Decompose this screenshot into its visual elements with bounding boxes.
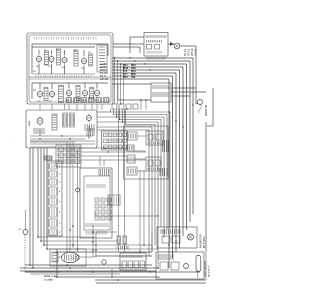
wire xyxy=(123,67,125,104)
wire xyxy=(180,45,196,47)
harness wire xyxy=(97,111,111,113)
terminal M1 xyxy=(112,104,117,109)
fuse F2 xyxy=(123,236,127,244)
wire xyxy=(99,156,101,166)
key switch K8 xyxy=(101,210,105,214)
latch motor M1 xyxy=(62,252,81,262)
wire xyxy=(72,143,74,248)
surface element P7 xyxy=(66,88,71,97)
indicator light PL1 xyxy=(198,100,203,114)
svg-text:GR GN: GR GN xyxy=(100,78,108,81)
key switch K3 xyxy=(107,198,111,202)
junction xyxy=(69,267,71,269)
connector block C1 xyxy=(49,163,61,169)
fan box xyxy=(157,227,197,248)
wire xyxy=(157,249,159,268)
bus wire xyxy=(112,75,173,77)
junction xyxy=(117,279,119,281)
junction xyxy=(95,249,97,251)
harness wire xyxy=(126,109,156,245)
wire xyxy=(117,61,119,104)
wire xyxy=(84,104,86,110)
wire xyxy=(134,150,146,152)
wire xyxy=(64,50,66,55)
relay contact R8 xyxy=(66,159,72,164)
wire xyxy=(64,65,66,74)
junction xyxy=(122,121,123,122)
relay contact R2 xyxy=(66,147,72,152)
label column xyxy=(200,234,207,248)
wire xyxy=(68,104,70,110)
wire xyxy=(195,46,197,104)
panel terminal T6 xyxy=(104,98,110,103)
switch S2 xyxy=(57,49,61,65)
junction xyxy=(168,111,169,112)
junction xyxy=(123,66,124,67)
junction xyxy=(72,244,74,246)
note text xyxy=(44,275,59,282)
panel terminal T1 xyxy=(66,98,72,103)
wire xyxy=(118,109,120,236)
latch relay text xyxy=(153,85,169,89)
bus wire xyxy=(112,57,193,59)
wire xyxy=(57,251,152,253)
junction xyxy=(29,264,31,266)
junction xyxy=(77,248,79,250)
junction xyxy=(172,251,174,253)
connector block C4 xyxy=(49,187,61,196)
harness wire xyxy=(117,109,165,238)
connector box text xyxy=(122,255,142,258)
junction xyxy=(157,267,159,269)
bus wire xyxy=(112,60,190,62)
wire xyxy=(56,249,58,277)
terminal B1 xyxy=(122,261,127,268)
panel bus wire L1 xyxy=(32,43,108,45)
wire xyxy=(38,50,40,54)
latch motor box xyxy=(50,249,86,266)
surface element P6 xyxy=(49,89,54,98)
oven lamp L2 xyxy=(37,116,43,126)
junction xyxy=(114,57,115,58)
relay box K2 xyxy=(146,157,161,171)
bundle wire xyxy=(168,79,170,268)
wire xyxy=(83,50,85,56)
wire xyxy=(20,267,158,269)
terminal M4 xyxy=(133,104,138,109)
connector J4 xyxy=(127,167,137,175)
key switch K6 xyxy=(107,204,111,208)
surface element P8 xyxy=(82,88,87,97)
wire xyxy=(51,50,53,54)
terminal B4 xyxy=(140,261,145,268)
surface switch panel inner box xyxy=(29,35,111,102)
clock lower marks xyxy=(147,51,161,54)
oven sensor RTD xyxy=(196,256,201,272)
wire xyxy=(64,104,66,110)
wire xyxy=(145,100,147,110)
wire xyxy=(124,244,126,252)
wire xyxy=(32,148,34,268)
junction xyxy=(175,120,176,121)
wire xyxy=(114,58,116,104)
svg-text:TN0: TN0 xyxy=(131,77,136,79)
wire xyxy=(81,155,127,157)
wire xyxy=(81,147,127,149)
selector switch xyxy=(52,114,57,130)
divider label marks xyxy=(36,76,91,78)
svg-text:FAN MOTOR: FAN MOTOR xyxy=(200,234,203,248)
switch S5 xyxy=(44,88,48,101)
wire xyxy=(83,66,85,74)
wire xyxy=(168,43,174,45)
junction xyxy=(134,60,135,61)
surface element P5 xyxy=(37,89,42,98)
wire xyxy=(40,148,42,241)
wire xyxy=(31,83,33,99)
clock text row xyxy=(146,35,166,38)
connector block C8 xyxy=(49,229,61,235)
oven lamp L3 xyxy=(87,114,92,123)
fan box text xyxy=(161,229,180,234)
svg-text:GY7: GY7 xyxy=(123,74,128,76)
wire xyxy=(205,122,207,252)
junction xyxy=(61,135,62,136)
connector J2 xyxy=(127,145,134,151)
wire xyxy=(20,270,156,272)
harness wire xyxy=(111,109,171,227)
junction xyxy=(149,69,150,70)
fuse label xyxy=(117,246,128,249)
wire xyxy=(68,83,70,88)
bus wire xyxy=(112,63,187,65)
wire xyxy=(58,256,62,258)
key switch K4 xyxy=(95,204,99,208)
surface element P4 xyxy=(81,56,86,65)
erc inner box xyxy=(84,176,110,230)
mid label xyxy=(87,128,94,136)
svg-text:BR8: BR8 xyxy=(131,74,136,76)
wire xyxy=(39,83,41,89)
wire xyxy=(39,129,41,136)
latch relay box xyxy=(151,83,171,102)
switch S4 xyxy=(89,54,93,66)
wire xyxy=(80,256,95,258)
junction xyxy=(157,215,158,216)
junction xyxy=(92,241,94,243)
wire xyxy=(33,73,95,75)
key switch K12 xyxy=(107,216,111,220)
wire xyxy=(38,236,95,238)
bundle wire xyxy=(189,61,191,222)
junction xyxy=(92,249,94,251)
key switch K10 xyxy=(95,216,99,220)
wire xyxy=(29,148,31,265)
wire xyxy=(51,83,53,89)
oven switch box xyxy=(26,110,97,148)
wire xyxy=(135,158,146,160)
connector label P1 xyxy=(44,156,52,160)
junction xyxy=(56,276,58,278)
svg-text:RD2: RD2 xyxy=(131,65,136,67)
key switch K9 xyxy=(107,210,111,214)
wire xyxy=(96,83,98,88)
key switch K11 xyxy=(101,216,105,220)
wire xyxy=(76,104,78,110)
connector block C2 xyxy=(49,171,61,177)
wire xyxy=(130,36,144,38)
svg-text:DOOR SW: DOOR SW xyxy=(206,104,208,116)
switch S7 xyxy=(76,86,80,101)
wire xyxy=(139,170,141,252)
junction xyxy=(144,63,145,64)
clock relay contact xyxy=(147,45,152,50)
wire xyxy=(101,104,103,110)
terminal M2 xyxy=(119,104,124,109)
wire xyxy=(112,83,151,85)
connector block C5 xyxy=(49,198,61,205)
oven lamp label xyxy=(34,128,44,134)
wire xyxy=(107,44,109,56)
wire xyxy=(171,95,190,97)
connector block C6 xyxy=(49,207,61,217)
wire xyxy=(196,103,198,106)
wire xyxy=(43,148,45,245)
wire xyxy=(37,148,39,237)
wire xyxy=(140,100,142,110)
wire xyxy=(66,143,68,252)
connector block C3 xyxy=(49,179,61,185)
bus wire xyxy=(112,66,183,68)
svg-text:RD-4 WH-2: RD-4 WH-2 xyxy=(209,265,211,277)
bundle wire xyxy=(192,58,194,214)
junction xyxy=(69,229,71,231)
relay contact R1 xyxy=(58,147,64,152)
surface element P2 xyxy=(49,54,54,63)
wire xyxy=(171,87,196,89)
erc lower text xyxy=(86,223,108,227)
harness wire xyxy=(123,109,159,250)
convection motor M2 xyxy=(102,260,106,264)
junction xyxy=(37,236,39,238)
junction xyxy=(39,138,40,139)
terminal M3 xyxy=(126,104,131,109)
wire xyxy=(118,99,151,101)
junction xyxy=(120,103,121,104)
wire xyxy=(143,170,145,245)
wire xyxy=(30,141,75,143)
junction xyxy=(103,147,104,148)
wire xyxy=(25,271,60,273)
svg-text:DS: DS xyxy=(19,229,23,231)
junction xyxy=(149,271,150,272)
label column xyxy=(184,48,198,56)
wire xyxy=(96,231,117,233)
surface element P1 xyxy=(36,54,41,63)
erc control box xyxy=(80,168,112,238)
harness wire xyxy=(97,121,123,123)
svg-text:OR4: OR4 xyxy=(131,67,136,70)
erc lower text 2 xyxy=(86,231,106,235)
wire xyxy=(95,279,206,281)
svg-text:NOTE: 1. ALL: NOTE: 1. ALL xyxy=(44,275,59,278)
sensor relay xyxy=(160,262,168,270)
wire xyxy=(69,143,71,252)
junction xyxy=(145,99,147,101)
relay contact R9 xyxy=(74,159,80,164)
wire xyxy=(30,138,85,140)
junction xyxy=(143,244,145,246)
junction xyxy=(192,104,193,105)
igniter IG xyxy=(184,264,189,269)
wire legend text block xyxy=(100,63,108,81)
junction xyxy=(129,57,130,58)
key switch K2 xyxy=(101,198,105,202)
junction xyxy=(43,244,45,246)
wire xyxy=(46,148,48,249)
ground strap dashed xyxy=(24,235,26,272)
wire xyxy=(96,282,206,284)
thermostat column xyxy=(63,113,68,127)
panel title text xyxy=(34,37,96,40)
wire xyxy=(81,159,146,161)
bus label grid xyxy=(123,65,136,79)
svg-text:WH3: WH3 xyxy=(123,68,129,70)
panel bus wire row2 xyxy=(32,82,108,84)
svg-text:PK9: PK9 xyxy=(123,77,128,79)
terminal B2 xyxy=(128,261,133,268)
wire xyxy=(120,64,122,104)
wire xyxy=(77,150,79,252)
panel terminal T4 xyxy=(89,98,95,103)
surface element P3 xyxy=(62,55,67,64)
wire xyxy=(117,84,119,100)
junction xyxy=(117,60,118,61)
harness wire xyxy=(97,116,117,118)
bundle wire xyxy=(175,73,177,252)
panel divider line xyxy=(29,76,111,78)
svg-text:BU6: BU6 xyxy=(131,71,136,73)
junction xyxy=(139,251,141,253)
junction xyxy=(119,119,120,120)
oven light L1 xyxy=(174,43,180,49)
wire xyxy=(88,126,90,139)
svg-text:BK-8 WH-6: BK-8 WH-6 xyxy=(204,236,206,248)
bus wire xyxy=(112,72,176,74)
wire xyxy=(31,44,33,74)
key switch K5 xyxy=(101,204,105,208)
junction xyxy=(116,116,117,117)
door switch DS xyxy=(23,210,28,235)
diode D1 xyxy=(170,42,174,46)
panel bus wire L2 xyxy=(32,46,95,48)
switch S6 xyxy=(59,86,64,103)
relay contact grid xyxy=(102,131,128,150)
junction xyxy=(107,151,108,152)
wire xyxy=(113,46,140,48)
bundle wire xyxy=(182,67,184,236)
wire xyxy=(111,269,113,277)
harness wire xyxy=(97,130,149,256)
panel divider line 2 xyxy=(29,78,111,80)
wire xyxy=(113,43,144,45)
panel terminal T3 xyxy=(81,98,87,103)
relay box K1 xyxy=(146,131,163,145)
harness wire xyxy=(114,109,168,230)
relay cluster box xyxy=(56,145,81,167)
wire xyxy=(118,244,120,252)
text block xyxy=(160,168,167,176)
junction xyxy=(40,240,42,242)
wire xyxy=(95,215,158,217)
relay contact R7 xyxy=(58,159,64,164)
wire xyxy=(95,255,152,257)
relay contact R3 xyxy=(74,147,80,152)
sensor box xyxy=(156,252,204,279)
text block xyxy=(163,140,169,152)
switch S3 xyxy=(74,50,78,66)
junction xyxy=(172,91,173,92)
wire xyxy=(94,212,96,216)
clock text row 2 xyxy=(147,40,162,43)
oven lamp label 2 xyxy=(85,124,94,131)
wire xyxy=(124,109,126,236)
harness wire xyxy=(97,127,152,252)
bundle wire xyxy=(186,64,188,230)
wire xyxy=(171,91,206,93)
latch relay text 2 xyxy=(153,92,169,97)
junction xyxy=(168,244,170,246)
clock relay contact 2 xyxy=(155,45,160,50)
junction xyxy=(92,271,94,273)
wire xyxy=(51,104,53,110)
junction xyxy=(66,264,68,266)
svg-text:BAKE: BAKE xyxy=(28,120,31,126)
erc text xyxy=(99,169,110,176)
wire xyxy=(38,64,40,74)
wire xyxy=(81,151,146,153)
buzzer BZ xyxy=(76,188,80,192)
junction xyxy=(175,240,177,242)
lock unit box xyxy=(124,126,169,179)
wire xyxy=(44,244,152,246)
junction xyxy=(56,251,58,253)
bus wire xyxy=(112,69,180,71)
junction xyxy=(168,87,169,88)
wire xyxy=(30,135,93,137)
wire xyxy=(95,232,97,257)
wire xyxy=(25,264,152,266)
svg-text:BK1: BK1 xyxy=(123,65,128,67)
wire xyxy=(84,83,86,88)
wire xyxy=(139,47,141,53)
wire xyxy=(137,170,146,172)
label column xyxy=(205,261,211,277)
fan motor M3 xyxy=(188,234,194,240)
wire xyxy=(137,135,146,137)
wire xyxy=(129,37,131,53)
junction xyxy=(46,248,48,250)
wire xyxy=(96,104,98,110)
wire xyxy=(205,252,207,280)
fan relay 2 xyxy=(172,236,180,243)
erc keypad label xyxy=(87,184,105,188)
wire xyxy=(57,276,160,278)
wire xyxy=(39,104,41,110)
wire xyxy=(51,64,53,74)
svg-text:2. CODE: 2. CODE xyxy=(44,280,53,282)
wire xyxy=(41,240,120,242)
